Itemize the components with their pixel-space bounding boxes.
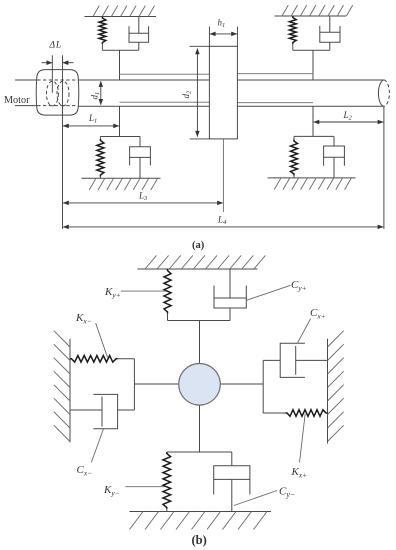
spring K bearing2 bottom [293, 136, 295, 140]
leader Kx- [96, 323, 108, 357]
shaft right end cap ellipse [378, 80, 383, 107]
damper bearing1 top: rod [138, 17, 140, 34]
rod circle left [134, 383, 178, 385]
leader Ky+ [121, 290, 166, 292]
leader Cy+ [246, 285, 290, 300]
coupling ellipse left (dashed) [46, 81, 58, 106]
bearing2 bottom bar [294, 135, 334, 137]
dimension h1 ext lines [208, 27, 210, 47]
coupling ellipse right (dashed) [57, 81, 69, 106]
damper Cy+ piston plate [214, 297, 246, 299]
damper bearing1 bottom: stub [139, 137, 141, 147]
wall hatched support right (b) [328, 331, 344, 444]
damper bearing2 top: rod [329, 16, 331, 32]
damper Cx+ cylinder cup [280, 343, 305, 377]
dimension d2 ext lines [190, 45, 210, 47]
damper Cx- piston rod [70, 409, 102, 411]
bottom bar (b) [167, 451, 232, 453]
damper Cy+ cylinder cup [214, 286, 246, 309]
damper Cy- stub [231, 452, 233, 466]
dimension d1 line [100, 81, 102, 105]
shaft step section bearing1-disc [120, 73, 210, 75]
damper bearing2 bottom: piston rod [333, 157, 335, 178]
damper bearing1 top: cylinder cup [129, 26, 149, 42]
ceiling hatched support (b) [138, 255, 266, 269]
dimension d2 dim line [196, 49, 198, 137]
leader Cx+ [297, 319, 310, 344]
leader Cx- [91, 429, 103, 462]
bearing1 top rod to shaft [119, 50, 121, 80]
damper bearing2 top: stub to bar [329, 42, 331, 50]
spring Kx+ [263, 412, 285, 414]
dimension L2 ext line right [383, 107, 385, 229]
dimension L4 [63, 226, 383, 228]
disc (rotor) [209, 46, 237, 139]
shaft step section disc-bearing2 [237, 73, 313, 75]
damper bearing2 bottom: piston plate [324, 156, 345, 158]
damper bearing1 top: piston plate [129, 32, 149, 34]
damper Cy- piston plate [214, 478, 250, 480]
damper bearing1 bottom: cylinder cup [130, 147, 151, 166]
dimension dL arrows [42, 62, 53, 64]
dimension L2 [314, 121, 384, 123]
bearing2 top bar [293, 49, 330, 51]
ceiling hatched support left (a) [85, 6, 157, 17]
rod circle top [199, 321, 201, 364]
damper Cy+ stub [229, 308, 231, 321]
leader Ky- [125, 486, 164, 488]
shaft left stub [15, 79, 37, 81]
leader Cy- [234, 491, 277, 506]
spring K bearing1 top [99, 17, 106, 45]
damper Cy+ rod [229, 269, 231, 298]
wall hatched support left (b) [54, 331, 70, 443]
top bar (b) [168, 320, 231, 322]
damper bearing2 bottom: stub [333, 136, 335, 146]
spring Kx- [70, 356, 118, 363]
svg-text:(b): (b) [192, 533, 207, 547]
spring K bearing2 top [289, 16, 296, 44]
right bar (b) [262, 360, 264, 413]
bearing1 bottom rod [119, 106, 121, 136]
left bar (b) [133, 359, 135, 410]
damper Cx+ piston rod [296, 359, 328, 361]
bearing1 bottom bar [100, 136, 140, 138]
damper Cy- piston rod [231, 479, 233, 511]
ceiling hatched support right (a) [275, 5, 353, 16]
damper bearing1 bottom: piston rod [139, 157, 141, 178]
damper Cx- piston plate [101, 397, 103, 427]
ground hatched support (b) [130, 512, 272, 530]
damper Cx+ link to bar [263, 359, 280, 361]
leader Kx+ [300, 414, 306, 463]
shaft hidden through motor (dashed) [37, 79, 78, 81]
damper bearing2 top: piston plate [320, 31, 340, 33]
spring Ky+ [164, 269, 171, 314]
spring Ky- [163, 452, 171, 509]
damper bearing1 bottom: piston plate [130, 156, 151, 158]
spring stub [101, 44, 103, 51]
svg-text:(a): (a) [192, 240, 205, 251]
bearing1 top bar [102, 49, 138, 51]
damper bearing2 bottom: cylinder cup [324, 146, 345, 166]
dimension h1 dim line [210, 33, 237, 35]
shaft main top/bottom [78, 79, 384, 81]
dimension L1 [63, 125, 119, 127]
bearing2 top rod to shaft [312, 50, 314, 80]
ground hatched support left (a) [82, 178, 161, 190]
bearing2 bottom rod [312, 106, 314, 136]
central mass circle [179, 364, 221, 406]
rod circle right [220, 383, 263, 385]
ground hatched support right (a) [268, 178, 356, 190]
damper Cy- cylinder cup [214, 466, 250, 495]
damper Cx- cylinder cup [93, 394, 117, 428]
dimension dL extension lines [51, 55, 53, 93]
spring K bearing1 bottom [99, 137, 101, 140]
damper Cx- link to bar [118, 409, 135, 411]
svg-text:ΔL: ΔL [49, 41, 62, 51]
damper Cx+ piston plate [295, 346, 297, 375]
rod circle bottom [199, 405, 201, 452]
motor body [36, 70, 79, 116]
disc centerline down [222, 139, 224, 212]
damper bearing2 top: cylinder cup [320, 26, 340, 42]
damper bearing1 top: stub to bar [138, 42, 140, 50]
spring stub [292, 44, 294, 51]
dimension L3 [63, 202, 223, 204]
svg-text:Motor: Motor [4, 95, 30, 106]
